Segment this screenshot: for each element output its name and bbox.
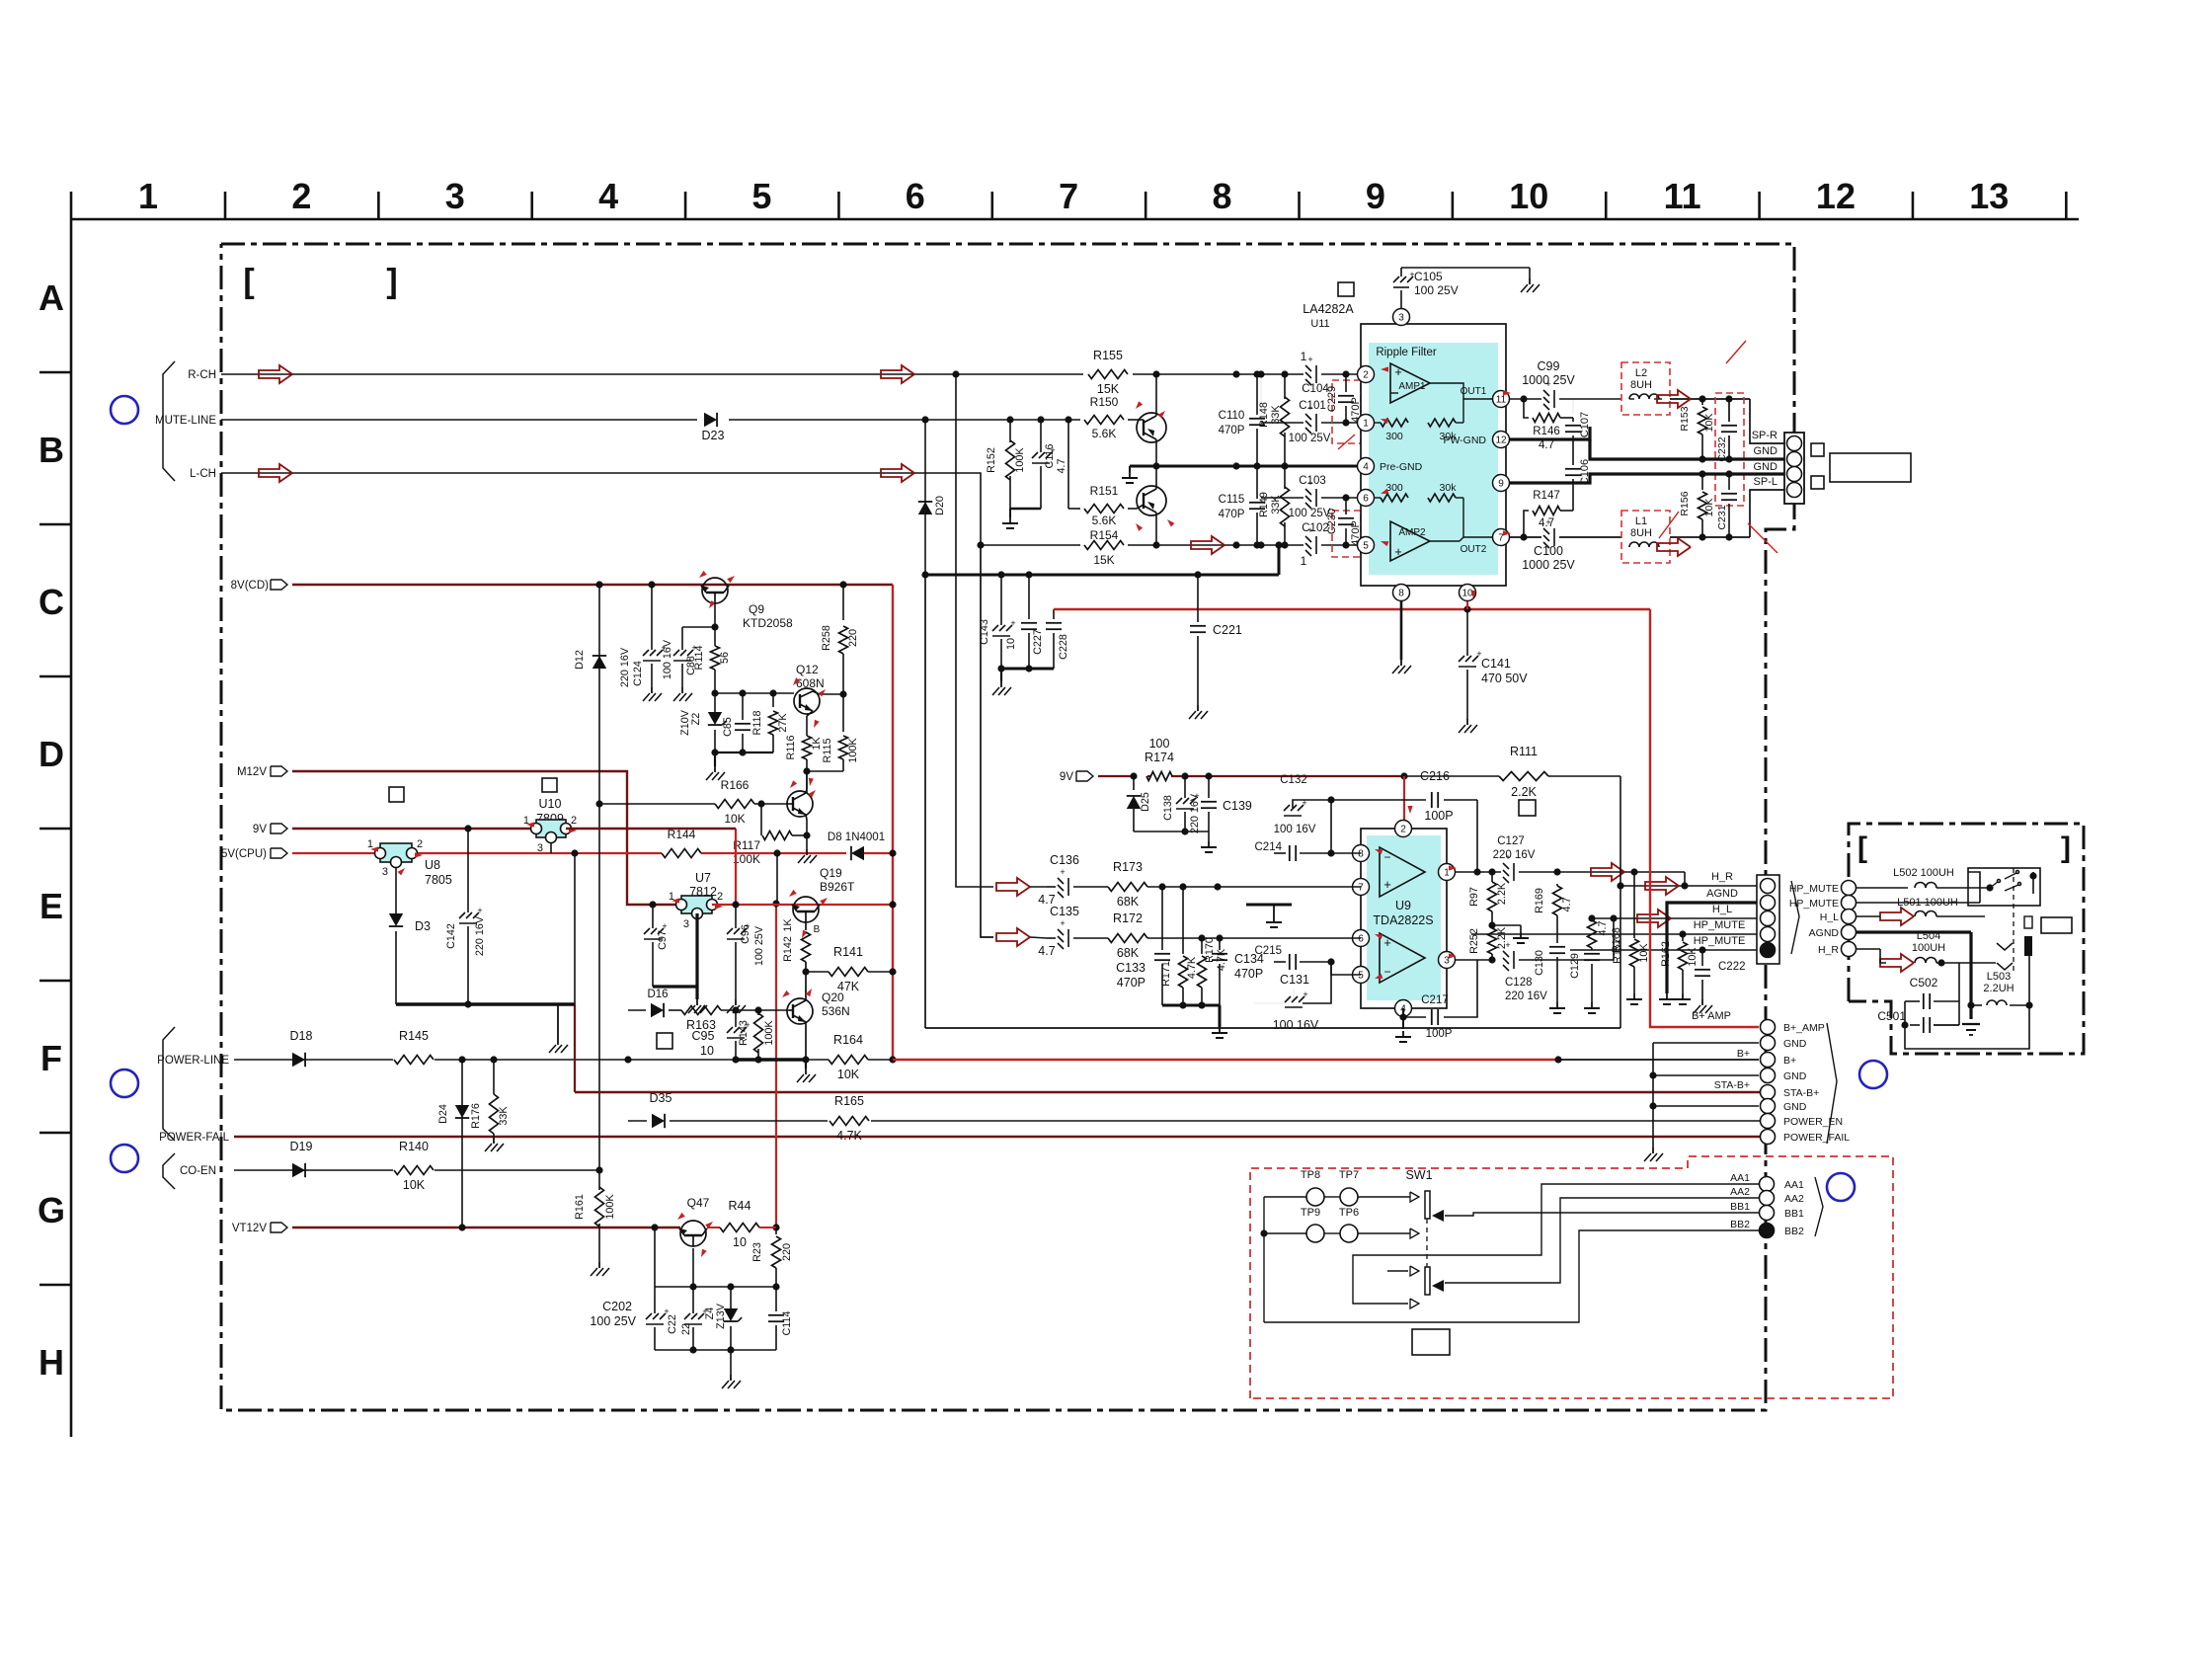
wire pin6 row <box>1047 937 1056 939</box>
capacitor C107 <box>1572 399 1574 415</box>
svg-text:C124: C124 <box>632 661 644 686</box>
ground hp AGND <box>1962 1024 1980 1035</box>
svg-text:R142: R142 <box>782 936 794 962</box>
svg-text:5: 5 <box>1363 541 1369 552</box>
gnd R97 row <box>1492 924 1521 926</box>
svg-text:OUT1: OUT1 <box>1461 386 1487 397</box>
arrow L501 <box>1880 908 1914 925</box>
capacitor C103 <box>1305 489 1311 495</box>
svg-text:U9: U9 <box>1395 899 1411 912</box>
svg-text:+: + <box>1383 877 1391 892</box>
wire pin7 row <box>1047 886 1056 888</box>
ground R176 <box>493 1138 495 1144</box>
ground C221 <box>1197 705 1199 711</box>
pin 5 <box>1358 537 1375 554</box>
svg-text:R161: R161 <box>574 1194 586 1220</box>
ground Q20 <box>805 1060 807 1069</box>
svg-text:10: 10 <box>1005 638 1017 650</box>
svg-text:L-CH: L-CH <box>190 468 216 480</box>
svg-text:STA-B+: STA-B+ <box>1783 1087 1819 1099</box>
junction POWER-LINE a <box>458 1056 465 1063</box>
resistor R118 <box>772 693 774 707</box>
capacitor C102 <box>1305 536 1311 542</box>
wire M12V maroon <box>292 771 681 905</box>
red leader mark <box>1361 549 1375 575</box>
wire BB2 route <box>1264 1230 1759 1322</box>
connector keys <box>1811 443 1824 456</box>
wire R-CH tap down to U9 feed <box>956 374 993 887</box>
svg-text:1: 1 <box>1301 350 1307 363</box>
capacitor C100 <box>1543 528 1549 534</box>
capacitor C230 <box>1338 517 1354 519</box>
svg-text:470P: 470P <box>1234 967 1263 981</box>
speaker plug rectangle <box>1830 453 1911 482</box>
wire MUTE-LINE <box>221 419 697 421</box>
svg-text:D16: D16 <box>647 989 668 1000</box>
wire pin4 down <box>1402 1017 1404 1029</box>
arrow L504 <box>1880 954 1914 972</box>
capacitor C222 <box>1701 950 1703 966</box>
svg-text:C105: C105 <box>1414 270 1443 283</box>
wire SP-L <box>1750 490 1784 537</box>
brace AA <box>1815 1177 1823 1236</box>
svg-text:Z2: Z2 <box>690 713 702 726</box>
svg-text:10: 10 <box>1461 589 1473 599</box>
resistor R161 <box>598 1170 600 1190</box>
svg-text:STA-B+: STA-B+ <box>1714 1079 1750 1091</box>
brace B+ strip <box>1827 1023 1837 1144</box>
svg-text:H: H <box>39 1342 64 1383</box>
svg-text:27K: 27K <box>777 713 789 733</box>
wire B+ row maroon <box>893 1059 1558 1061</box>
connector B+ strip pins <box>1761 1020 1776 1035</box>
resistor R176 branch <box>493 1060 495 1094</box>
svg-text:+: + <box>1545 517 1550 527</box>
svg-text:D24: D24 <box>437 1104 449 1124</box>
testpoint TP6 <box>1340 1225 1358 1242</box>
svg-text:B+_AMP: B+_AMP <box>1783 1022 1825 1034</box>
resistor R144 <box>662 849 701 858</box>
svg-text:9V: 9V <box>1060 771 1073 783</box>
svg-text:D: D <box>39 734 64 774</box>
wire H_R upper row <box>1519 871 1557 873</box>
capacitor C141 <box>1466 609 1468 656</box>
wire L503 loop <box>1905 1005 2029 1049</box>
svg-text:100 16V: 100 16V <box>1274 824 1316 835</box>
svg-text:R149: R149 <box>1258 492 1270 517</box>
pin8 U9 <box>1353 845 1370 862</box>
diode D16 <box>651 1003 664 1017</box>
svg-text:[: [ <box>1857 831 1867 864</box>
pin5 U9 <box>1353 967 1370 984</box>
IC U9 outline <box>1361 829 1447 1008</box>
svg-text:33K: 33K <box>1270 405 1282 425</box>
svg-text:30k: 30k <box>1440 482 1458 494</box>
svg-text:2: 2 <box>291 176 311 216</box>
svg-text:+: + <box>1394 364 1402 379</box>
row tick <box>39 523 71 526</box>
svg-text:C228: C228 <box>1058 634 1069 660</box>
svg-text:AA1: AA1 <box>1784 1179 1804 1191</box>
svg-text:C230: C230 <box>1326 509 1338 534</box>
wire top to gnd <box>1401 267 1530 269</box>
pin 1 <box>1358 415 1375 432</box>
svg-text:4.7K: 4.7K <box>1186 956 1198 979</box>
ground R162 <box>1682 993 1684 999</box>
svg-text:R148: R148 <box>1258 402 1270 428</box>
svg-text:68K: 68K <box>1117 895 1140 909</box>
wire OUT1 row <box>1510 398 1541 400</box>
ruler tick 3 <box>530 192 533 219</box>
svg-text:HP_MUTE: HP_MUTE <box>1694 935 1746 947</box>
capacitor C95 <box>735 1010 737 1027</box>
resistor R23 <box>775 1227 777 1234</box>
left ruler line <box>70 192 73 1437</box>
svg-text:R171: R171 <box>1160 961 1172 987</box>
svg-text:R145: R145 <box>399 1029 429 1043</box>
wire Pre-GND row <box>1130 465 1357 468</box>
ground stub D3 bus <box>557 1004 559 1039</box>
wire GND bus <box>1653 1042 1759 1044</box>
svg-text:4.7: 4.7 <box>1539 439 1554 451</box>
ruler tick 12 <box>1912 192 1915 219</box>
svg-text:C222: C222 <box>1718 961 1746 973</box>
wire AGND thick hp <box>1856 930 1971 933</box>
wire DC bus riser maroon <box>574 1004 576 1092</box>
svg-text:R157: R157 <box>1612 938 1623 964</box>
diode D8 <box>851 846 864 860</box>
wire L-CH cont down to U9 feed <box>981 545 993 937</box>
ruler tick 7 <box>1145 192 1147 219</box>
wire H_L route <box>1519 918 1614 960</box>
svg-text:R155: R155 <box>1093 349 1123 362</box>
capacitor C142 <box>467 829 469 912</box>
wire U10 pin3 <box>550 843 552 853</box>
arrow R154 row <box>1191 536 1224 554</box>
cap cluster top bus <box>655 1286 776 1288</box>
wire pin10 maroon <box>1466 601 1468 609</box>
svg-text:100K: 100K <box>733 852 760 866</box>
pin 9 <box>1493 475 1510 492</box>
svg-text:C114: C114 <box>781 1310 793 1335</box>
svg-text:B: B <box>814 924 821 935</box>
svg-text:]: ] <box>2061 831 2071 864</box>
wire 9V maroon <box>292 828 536 830</box>
row tick <box>39 828 71 831</box>
ground Q18 <box>806 849 808 855</box>
ruler tick 1 <box>224 192 227 219</box>
svg-text:−: − <box>1383 850 1390 864</box>
svg-text:3: 3 <box>445 176 465 216</box>
svg-text:C141: C141 <box>1481 657 1511 671</box>
capacitor C114 <box>775 1287 777 1311</box>
svg-text:HP_MUTE: HP_MUTE <box>1789 883 1839 895</box>
svg-text:R23: R23 <box>751 1242 763 1262</box>
transistor QB2 <box>1137 486 1166 515</box>
capacitor C221 <box>1197 575 1199 622</box>
svg-text:U11: U11 <box>1310 318 1329 330</box>
svg-text:C103: C103 <box>1299 475 1326 487</box>
ground pin4 <box>1402 1031 1404 1037</box>
cap cluster bottom bus <box>655 1349 776 1351</box>
blue circle hp <box>1859 1061 1887 1088</box>
small label box hp <box>2041 917 2072 933</box>
resistor R166 <box>715 800 754 809</box>
svg-text:TDA2822S: TDA2822S <box>1373 913 1433 927</box>
capacitor C104 electrolytic <box>1305 365 1311 371</box>
arrow L-CH mid <box>881 464 914 482</box>
svg-text:D19: D19 <box>290 1140 313 1153</box>
wire R142 to Q20 <box>805 972 807 991</box>
zener Z4 <box>730 1287 732 1308</box>
resistor R142 <box>805 922 807 930</box>
capacitor C99 <box>1543 390 1549 396</box>
ruler tick 9 <box>1452 192 1455 219</box>
svg-text:4: 4 <box>1363 462 1369 473</box>
svg-text:4.7: 4.7 <box>1561 897 1573 911</box>
red dashed box C229 <box>1332 380 1361 443</box>
svg-text:Z10V: Z10V <box>679 709 691 736</box>
diode D20 column <box>924 420 926 575</box>
transistor Q19 <box>793 897 819 922</box>
svg-text:C101: C101 <box>1299 400 1326 412</box>
svg-text:BB1: BB1 <box>1784 1208 1804 1220</box>
arrow L-CH in <box>259 464 292 482</box>
wire AGND thick <box>1667 903 1759 993</box>
capacitor C131 <box>1285 996 1291 1002</box>
resistor R143 <box>757 1010 759 1015</box>
pin1 U9 <box>1439 864 1456 881</box>
ground Pre-GND <box>1129 466 1131 472</box>
ruler tick 2 <box>377 192 380 219</box>
ground GND bus <box>1652 1148 1654 1153</box>
svg-text:LA4282A: LA4282A <box>1303 302 1354 316</box>
row tick <box>39 1132 71 1135</box>
ground U7 <box>696 999 698 1005</box>
svg-text:+: + <box>1060 918 1065 928</box>
svg-text:C217: C217 <box>1421 994 1449 1006</box>
capacitor C228 <box>1053 609 1055 619</box>
resistor R149 <box>1284 466 1286 489</box>
svg-text:C131: C131 <box>1280 973 1309 987</box>
capacitor C139 <box>1208 776 1210 798</box>
switch SW1 bars <box>1425 1191 1430 1219</box>
svg-text:C97: C97 <box>657 930 669 950</box>
svg-text:C138: C138 <box>1162 795 1174 821</box>
svg-text:220 16V: 220 16V <box>1189 793 1201 833</box>
svg-text:+: + <box>1010 618 1015 628</box>
gnd stub pin7 <box>1246 904 1292 907</box>
wire D16 branch <box>628 1009 646 1011</box>
series R169 C130 <box>1556 884 1558 886</box>
wire D35 branch <box>628 1120 647 1122</box>
capacitor C135 <box>1058 929 1064 935</box>
svg-text:C142: C142 <box>445 923 457 949</box>
svg-text:C99: C99 <box>1538 359 1560 373</box>
svg-text:C215: C215 <box>1255 945 1283 957</box>
wire Q20 emitter <box>805 1022 807 1060</box>
svg-text:−: − <box>1383 965 1390 979</box>
jack body contacts <box>1997 943 2013 950</box>
open square R111 <box>1519 800 1536 816</box>
ruler tick 4 <box>684 192 687 219</box>
svg-text:Q9: Q9 <box>749 602 764 616</box>
svg-text:R252: R252 <box>1468 928 1480 954</box>
gnd bus R152 <box>1010 508 1041 511</box>
svg-text:12: 12 <box>1816 176 1856 216</box>
svg-text:R164: R164 <box>833 1033 863 1047</box>
svg-text:L504: L504 <box>1917 930 1940 942</box>
pin 11 <box>1493 391 1510 408</box>
wire node X to Q18 <box>806 771 808 793</box>
capacitor C110 <box>1256 374 1258 415</box>
capacitor C97 <box>652 905 654 928</box>
capacitor C229 <box>1338 395 1354 397</box>
resistor R140 <box>394 1166 434 1175</box>
svg-text:R141: R141 <box>833 945 863 959</box>
capacitor C96 <box>735 905 737 928</box>
wire C216 right down <box>1476 800 1478 872</box>
junction Q12 collector <box>839 690 846 697</box>
open square near C95 <box>657 1033 672 1049</box>
wire CO-EN <box>234 1169 292 1171</box>
ground C96 <box>735 999 737 1005</box>
svg-text:+: + <box>662 921 667 931</box>
svg-text:Q20: Q20 <box>822 990 844 1004</box>
blue circle marker F1 <box>111 1069 138 1097</box>
resistor R117 <box>760 804 762 835</box>
wire B+ row black segment <box>1558 1059 1759 1061</box>
svg-text:Pre-GND: Pre-GND <box>1380 461 1423 473</box>
wire Q12 emitter <box>807 711 813 716</box>
capacitor C231 <box>1728 474 1730 490</box>
wire into arrows <box>1030 886 1047 888</box>
svg-text:R111: R111 <box>1510 745 1538 758</box>
ground D25 bus <box>1208 841 1210 847</box>
wire Q18 emitter <box>803 831 810 838</box>
open square D5 area <box>542 778 557 792</box>
ground R161 <box>598 1262 600 1268</box>
svg-text:HP_MUTE: HP_MUTE <box>1694 919 1746 931</box>
svg-text:D18: D18 <box>290 1029 313 1043</box>
diode D25 <box>1133 776 1135 790</box>
svg-text:F: F <box>40 1038 62 1078</box>
red dashed box L2 <box>1621 362 1670 415</box>
svg-text:8V(CD): 8V(CD) <box>231 580 270 592</box>
capacitor C88 <box>681 627 683 650</box>
red dashed box L1 <box>1621 511 1670 563</box>
svg-text:R176: R176 <box>470 1103 482 1129</box>
wire Q19 to riser red <box>776 904 893 906</box>
row tick <box>39 1284 71 1287</box>
ruler tick 11 <box>1758 192 1761 219</box>
svg-text:R147: R147 <box>1533 490 1560 502</box>
svg-text:470P: 470P <box>1117 976 1145 990</box>
bus C133 bottom <box>1162 1004 1220 1007</box>
resistor R152 <box>1009 420 1011 442</box>
svg-text:2: 2 <box>417 838 423 850</box>
arrows into C136/C135 <box>996 878 1030 896</box>
svg-text:2.2K: 2.2K <box>1496 882 1508 905</box>
pin 2 <box>1358 366 1375 383</box>
wire 9V black cont <box>1404 775 1499 777</box>
svg-text:D3: D3 <box>415 919 431 933</box>
svg-text:C22: C22 <box>667 1314 678 1334</box>
ground cap cluster <box>730 1350 732 1375</box>
svg-text:10K: 10K <box>1703 414 1715 433</box>
junction R117 tap <box>757 800 764 807</box>
svg-text:C231: C231 <box>1716 505 1728 529</box>
svg-text:2.2UH: 2.2UH <box>1983 983 2014 994</box>
svg-text:8: 8 <box>1398 589 1404 599</box>
svg-text:R114: R114 <box>693 645 705 670</box>
svg-text:U8: U8 <box>425 858 440 872</box>
ground C141 <box>1466 719 1468 725</box>
svg-text:536N: 536N <box>822 1004 850 1018</box>
svg-text:C143: C143 <box>979 619 990 645</box>
svg-text:U10: U10 <box>539 797 562 811</box>
svg-text:+: + <box>1505 940 1510 950</box>
resistor R150 <box>1084 416 1124 425</box>
ruler tick 13 <box>2065 192 2068 219</box>
svg-text:H_L: H_L <box>1712 904 1732 915</box>
pin 7 <box>1493 529 1510 546</box>
svg-text:1: 1 <box>1301 554 1307 568</box>
svg-text:1K: 1K <box>782 918 794 932</box>
resistor R156 <box>1701 474 1703 490</box>
port VT12V <box>271 1223 287 1232</box>
wire 12V rail riser red <box>775 904 777 1227</box>
capacitor C105 <box>1393 277 1399 282</box>
svg-text:R152: R152 <box>986 447 997 473</box>
svg-text:8: 8 <box>1213 176 1232 216</box>
svg-text:D23: D23 <box>702 429 725 442</box>
resistor R162 <box>1682 934 1684 941</box>
svg-text:+: + <box>1307 355 1312 364</box>
ruler tick 5 <box>837 192 840 219</box>
svg-text:100 16V: 100 16V <box>662 639 673 679</box>
svg-text:9: 9 <box>1498 479 1504 490</box>
svg-text:100UH: 100UH <box>1912 942 1945 954</box>
svg-text:L502 100UH: L502 100UH <box>1893 867 1954 879</box>
jack black bars <box>2024 936 2032 956</box>
wire POWER-LINE <box>234 1059 292 1061</box>
svg-text:C221: C221 <box>1213 623 1242 637</box>
svg-text:R166: R166 <box>721 778 750 792</box>
svg-text:4.7: 4.7 <box>1038 944 1055 958</box>
svg-text:100 25V: 100 25V <box>1289 433 1331 444</box>
resistor R111 <box>1499 772 1548 781</box>
svg-text:+: + <box>1302 798 1306 808</box>
svg-text:B+: B+ <box>1783 1055 1796 1067</box>
svg-text:C133: C133 <box>1116 961 1145 975</box>
capacitor C134 <box>1219 938 1221 950</box>
svg-text:D35: D35 <box>650 1091 672 1105</box>
svg-text:B: B <box>39 430 64 470</box>
svg-text:C102: C102 <box>1302 522 1329 534</box>
junction rch pins <box>1232 370 1239 377</box>
jack dashed line <box>2013 868 2014 971</box>
blue circle AA <box>1827 1173 1855 1201</box>
svg-text:R140: R140 <box>399 1140 429 1153</box>
svg-text:11: 11 <box>1664 176 1701 216</box>
svg-text:220 16V: 220 16V <box>619 647 631 687</box>
capacitor C227 <box>1028 575 1030 619</box>
svg-text:H_L: H_L <box>1820 911 1839 923</box>
svg-text:3: 3 <box>537 842 543 854</box>
wire POWER-FAIL maroon <box>234 1136 1767 1138</box>
IC U11 LA4282A outline <box>1361 324 1506 586</box>
